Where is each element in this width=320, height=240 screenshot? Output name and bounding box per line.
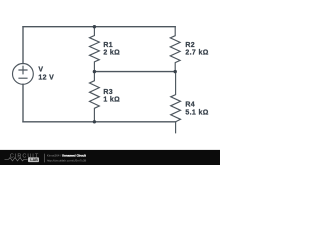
- svg-text:V: V: [38, 67, 43, 74]
- junction dot top at R1: [93, 25, 96, 28]
- svg-text:2.7 kΩ: 2.7 kΩ: [185, 50, 208, 57]
- footer black bar: [0, 150, 220, 165]
- svg-text:Kimat364 / Unnamed Circuit: Kimat364 / Unnamed Circuit: [47, 154, 86, 158]
- footer logo resistor zigzag: [5, 158, 28, 161]
- svg-text:1 kΩ: 1 kΩ: [103, 97, 120, 104]
- wire middle horizontal: [94, 71, 175, 73]
- resistor R1: [90, 27, 100, 72]
- junction dot middle right: [174, 70, 177, 73]
- footer separator line: [43, 154, 46, 163]
- junction dot bottom at R3: [93, 120, 96, 123]
- svg-text:2 kΩ: 2 kΩ: [103, 50, 120, 57]
- resistor R4: [171, 72, 181, 133]
- footer logo LAB box: [28, 157, 39, 162]
- junction dot middle left: [93, 70, 96, 73]
- svg-text:R2: R2: [185, 42, 195, 49]
- svg-text:LAB: LAB: [30, 158, 38, 162]
- wire top horizontal: [23, 26, 175, 28]
- svg-text:R1: R1: [103, 42, 113, 49]
- wire bottom horizontal: [23, 121, 176, 123]
- resistor R2: [170, 27, 180, 72]
- voltage source minus sign: [19, 77, 27, 79]
- svg-text:12 V: 12 V: [38, 74, 54, 81]
- svg-text:R3: R3: [103, 89, 113, 96]
- wire left vertical lower: [22, 84, 24, 122]
- svg-text:5.1 kΩ: 5.1 kΩ: [185, 109, 208, 116]
- resistor R3: [90, 72, 100, 122]
- voltage source plus sign: [19, 66, 27, 74]
- wire left vertical upper: [22, 27, 24, 64]
- svg-text:R4: R4: [185, 102, 195, 109]
- svg-text:http://circuitlab.com/c/5m7c38: http://circuitlab.com/c/5m7c38: [47, 159, 87, 163]
- voltage source V1 circle: [13, 64, 34, 85]
